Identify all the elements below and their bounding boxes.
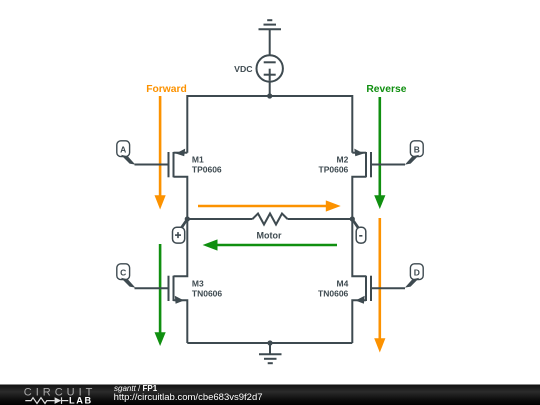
M3 source arrow [175, 296, 184, 304]
ground (bottom) [259, 354, 282, 363]
wire gate M1 [135, 164, 168, 166]
svg-text:D: D [414, 268, 420, 278]
flag + (motor left) [173, 219, 189, 243]
wire ground to VDC [269, 29, 271, 55]
svg-text:B: B [414, 145, 420, 155]
M1 source arrow [176, 149, 185, 157]
svg-text:TN0606: TN0606 [192, 288, 223, 298]
reverse current arrow (right, green, down) [374, 97, 385, 209]
svg-text:TN0606: TN0606 [318, 288, 349, 298]
junction node bottom rail [267, 340, 272, 345]
forward current arrow (lower-right, orange, down) [374, 218, 385, 353]
transistor M1 (PMOS) [169, 152, 188, 219]
junction node motor left [185, 216, 190, 221]
transistor M4 (NMOS, mirrored) [352, 219, 371, 343]
bottom rail wire [187, 342, 352, 344]
wire motor rail left [187, 218, 252, 220]
svg-text:TP0606: TP0606 [192, 165, 222, 175]
wire to ground [269, 343, 271, 354]
M4 source arrow [356, 296, 365, 304]
wire motor rail right [288, 218, 353, 220]
svg-text:M1: M1 [192, 155, 204, 165]
flag - (motor right) [352, 219, 366, 243]
svg-text:Reverse: Reverse [366, 84, 406, 95]
junction node motor right [350, 216, 355, 221]
wire gate M3 [135, 287, 168, 289]
junction node on top rail [267, 93, 272, 98]
transistor M2 (PMOS, mirrored) [352, 152, 371, 219]
CircuitLab logo glyph (resistor + diode) [25, 397, 68, 404]
svg-text:Forward: Forward [146, 84, 187, 95]
svg-text:VDC: VDC [234, 64, 253, 74]
transistor M3 (NMOS) [169, 219, 188, 343]
svg-text:LAB: LAB [69, 396, 93, 405]
svg-text:http://circuitlab.com/cbe683vs: http://circuitlab.com/cbe683vs9f2d7 [114, 392, 263, 403]
M2 source arrow [354, 149, 363, 157]
wire gate M2 [372, 164, 405, 166]
svg-text:TP0606: TP0606 [319, 165, 349, 175]
wire VDC to top rail [269, 82, 271, 96]
forward motor-current arrow (orange, right) [198, 200, 341, 211]
reverse motor-current arrow (green, left) [203, 239, 337, 250]
svg-text:A: A [120, 145, 126, 155]
reverse current arrow (lower-left, green, down) [155, 244, 166, 346]
svg-text:M3: M3 [192, 278, 204, 288]
terminal flag A [117, 141, 136, 165]
terminal flag C [117, 264, 136, 288]
wire gate M4 [372, 287, 405, 289]
svg-text:Motor: Motor [257, 230, 282, 240]
forward current arrow (left, orange, down) [155, 96, 166, 210]
terminal flag D [405, 264, 423, 288]
svg-text:M4: M4 [336, 278, 348, 288]
ground (top, flipped) [259, 20, 282, 29]
voltage source V1 (VDC) [257, 55, 283, 81]
svg-text:C: C [120, 268, 126, 278]
resistor Motor (zigzag) [253, 214, 288, 225]
svg-text:M2: M2 [336, 155, 348, 165]
top rail wire [187, 96, 352, 153]
terminal flag B [405, 141, 423, 165]
